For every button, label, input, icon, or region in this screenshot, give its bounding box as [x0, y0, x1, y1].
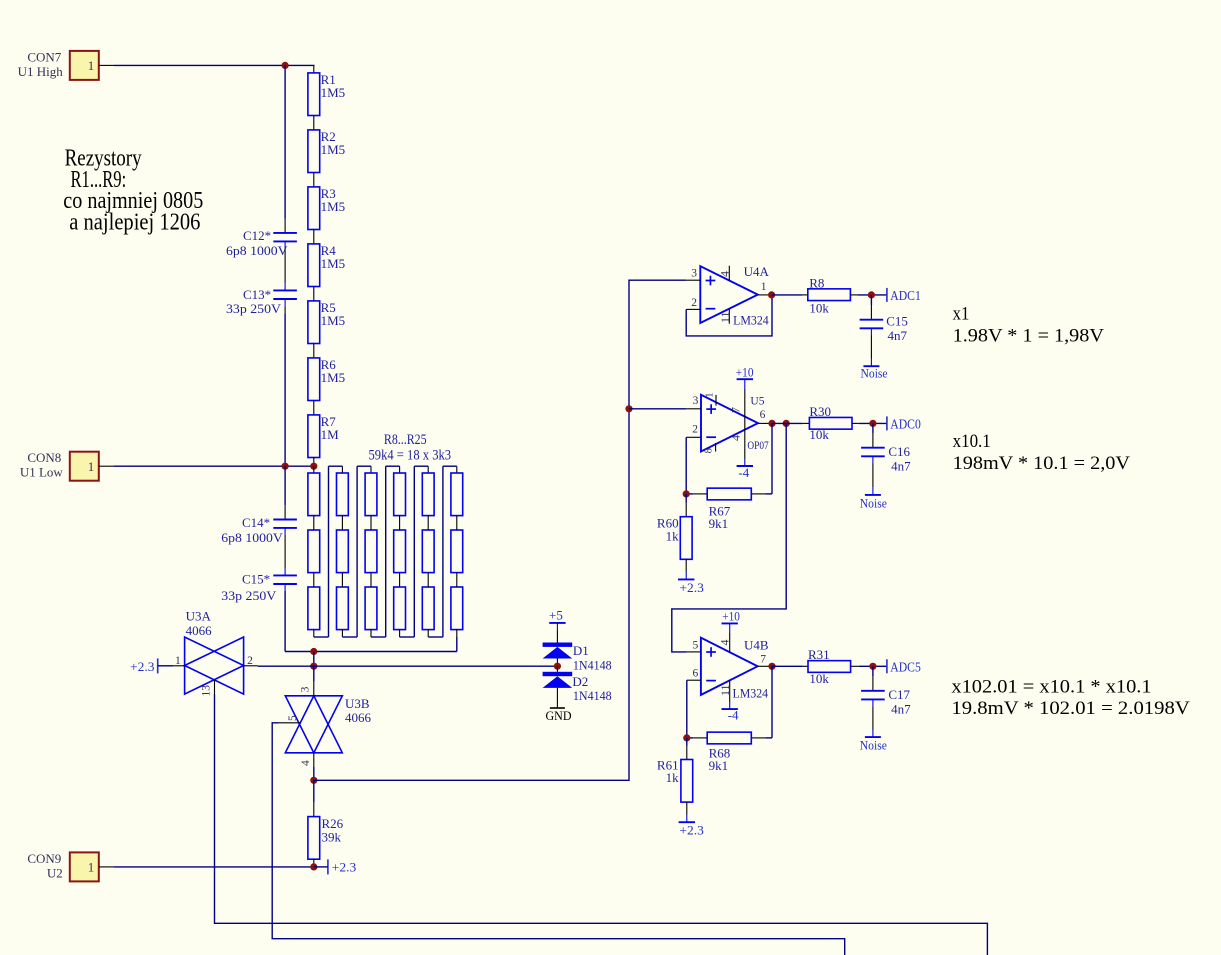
wire +5 to D1	[556, 623, 558, 643]
connector CON9 pin 1	[27, 851, 98, 882]
wire CON7 to node	[99, 64, 315, 66]
svg-text:U3B: U3B	[345, 696, 370, 711]
svg-text:R8: R8	[809, 276, 824, 291]
U5 balance pin 1 stub	[704, 393, 716, 406]
svg-text:U1 High: U1 High	[18, 64, 64, 79]
connector CON7 pin 1	[18, 49, 99, 80]
supply Noise under C15	[861, 328, 888, 380]
resistor R7 1M	[308, 414, 339, 457]
ground GND	[546, 688, 572, 723]
svg-text:D1: D1	[573, 643, 589, 658]
svg-text:x1: x1	[953, 303, 970, 324]
svg-text:1k: 1k	[666, 770, 680, 785]
svg-text:3: 3	[299, 686, 311, 692]
svg-text:+2.3: +2.3	[679, 580, 704, 595]
svg-text:C15: C15	[886, 314, 908, 329]
svg-text:1: 1	[761, 281, 767, 293]
svg-text:39k: 39k	[322, 829, 342, 844]
resistors array column 3 (3 x 3k3)	[365, 466, 377, 637]
junction R67/R60	[683, 490, 690, 497]
svg-text:4: 4	[300, 760, 312, 766]
svg-text:10k: 10k	[809, 427, 829, 442]
svg-text:-4: -4	[738, 465, 749, 480]
svg-text:10k: 10k	[809, 671, 829, 686]
svg-text:2: 2	[692, 424, 698, 436]
wire C12 to C13	[284, 241, 286, 290]
wire C14 branch	[284, 466, 286, 519]
supply +5	[549, 607, 566, 623]
junction ADC0 node	[869, 420, 876, 427]
wire tap node to diode clamp	[314, 665, 558, 667]
supply Noise under C17	[860, 699, 887, 752]
wire	[313, 344, 315, 358]
wire bus to U4A pin 3	[686, 279, 700, 281]
wire to R30	[772, 422, 809, 424]
wire R30 to ADC0 node	[852, 422, 887, 424]
svg-text:U1 Low: U1 Low	[20, 465, 64, 480]
junction R7/array	[310, 463, 317, 470]
U4A power pin 11 stub	[718, 309, 732, 324]
svg-text:1: 1	[88, 860, 95, 875]
supply Noise under C16	[860, 456, 887, 510]
svg-text:6p8 1000V: 6p8 1000V	[226, 243, 288, 258]
svg-text:Noise: Noise	[861, 366, 888, 381]
svg-text:9k1: 9k1	[709, 758, 729, 773]
supply +2.3 under R60	[678, 579, 704, 594]
svg-text:1M5: 1M5	[321, 370, 346, 385]
svg-text:6: 6	[692, 667, 698, 679]
analog switch U3B 4066	[285, 686, 371, 766]
wire CON8 to divider tap	[99, 465, 314, 467]
wire D1 anode to net	[556, 659, 558, 667]
supply +10 above U5	[736, 364, 754, 379]
svg-text:C12*: C12*	[243, 228, 271, 243]
svg-text:1N4148: 1N4148	[573, 688, 612, 703]
net label ADC1	[887, 288, 921, 303]
svg-text:1.98V * 1 = 1,98V: 1.98V * 1 = 1,98V	[953, 325, 1105, 346]
svg-text:198mV * 10.1 = 2,0V: 198mV * 10.1 = 2,0V	[953, 453, 1131, 474]
svg-text:4n7: 4n7	[888, 328, 908, 343]
svg-text:LM324: LM324	[733, 313, 769, 328]
net label +2.3 at R26	[314, 859, 357, 874]
resistor R68 9k1	[707, 732, 751, 773]
wire C14 to C15	[284, 528, 286, 576]
wire U3A pin 13 control net	[215, 680, 988, 955]
resistor R6 1M5	[308, 357, 345, 400]
junction U4A output	[768, 291, 775, 298]
junction array bottom	[310, 648, 317, 655]
junction R68/R61	[683, 734, 690, 741]
net label ADC5	[887, 659, 921, 674]
supply -4 under U5	[737, 465, 753, 480]
net label +2.3 at U3A pin 1	[130, 658, 158, 673]
wire U5 feedback loop	[751, 423, 772, 494]
wire U5 output	[758, 422, 772, 424]
wire U5 pin 2 from feedback	[686, 437, 701, 494]
svg-text:ADC0: ADC0	[890, 417, 921, 432]
wire	[313, 287, 315, 301]
svg-text:D2: D2	[572, 674, 588, 689]
svg-text:x10.1: x10.1	[953, 431, 991, 452]
svg-text:CON9: CON9	[27, 851, 61, 866]
resistor R1 1M5	[308, 72, 345, 115]
wire tap node to U3B pin 3	[313, 666, 315, 696]
wire R67 to node	[686, 493, 707, 495]
svg-text:OP07: OP07	[747, 440, 769, 452]
svg-text:Noise: Noise	[860, 738, 887, 753]
svg-text:1M5: 1M5	[321, 142, 346, 157]
svg-text:CON8: CON8	[27, 450, 61, 465]
junction top node	[282, 62, 289, 69]
op-amp U4A LM324	[691, 264, 769, 328]
junction U4B output	[768, 663, 775, 670]
svg-text:3: 3	[691, 268, 697, 280]
supply +2.3 under R61	[679, 822, 704, 838]
junction U3B output	[310, 777, 317, 784]
svg-text:C16: C16	[888, 444, 910, 459]
resistor R8 10k	[808, 276, 851, 316]
svg-text:4n7: 4n7	[891, 458, 911, 473]
label resistor array R8...R25	[369, 432, 452, 464]
junction ADC5 node	[869, 663, 876, 670]
svg-text:2: 2	[691, 297, 697, 309]
resistor R2 1M5	[308, 129, 345, 172]
wire U4B feedback loop	[751, 666, 772, 738]
junction diode clamp	[554, 663, 561, 670]
resistor R26 39k	[308, 780, 344, 867]
wire to U3A output net	[313, 652, 315, 667]
svg-text:x102.01 = x10.1 * x10.1: x102.01 = x10.1 * x10.1	[951, 676, 1151, 697]
svg-text:ADC1: ADC1	[890, 288, 921, 303]
svg-text:1N4148: 1N4148	[573, 657, 612, 672]
capacitor C16 4n7	[861, 423, 911, 473]
svg-text:U4A: U4A	[744, 264, 770, 279]
capacitor C13 33p 250V	[226, 287, 297, 316]
connector CON8 pin 1	[20, 450, 99, 481]
svg-text:1: 1	[88, 459, 95, 474]
wire R31 to ADC5 node	[851, 665, 887, 667]
svg-text:GND: GND	[546, 708, 572, 723]
capacitor C12 6p8 1000V	[226, 228, 297, 258]
svg-text:19.8mV * 102.01 = 2.0198V: 19.8mV * 102.01 = 2.0198V	[951, 698, 1190, 719]
svg-text:+2.3: +2.3	[679, 823, 704, 838]
diode D1 1N4148	[543, 643, 612, 673]
svg-text:a najlepiej 1206: a najlepiej 1206	[69, 210, 200, 236]
svg-text:1: 1	[88, 58, 95, 73]
resistors array column 2 (3 x 3k3)	[337, 466, 349, 637]
wire +2.3 to pin 1	[158, 665, 185, 667]
svg-text:4: 4	[718, 271, 732, 277]
svg-text:33p 250V: 33p 250V	[226, 301, 282, 316]
note x102.01 gain	[951, 676, 1190, 719]
capacitor C15 33p 250V	[221, 572, 297, 603]
supply -4 under U4B	[722, 708, 740, 723]
svg-text:C17: C17	[888, 687, 910, 702]
svg-text:5: 5	[287, 715, 299, 721]
wire CON9 to R26	[99, 866, 314, 868]
wire U4A feedback pin 2	[686, 295, 772, 336]
svg-text:C15*: C15*	[242, 572, 270, 587]
wire U3B pin 4 to output node	[313, 753, 315, 781]
wire U3B pin 5 control net	[272, 723, 845, 955]
wire U3B output to opamp bus	[314, 280, 686, 780]
wire U4A output	[758, 294, 772, 296]
wire U4B output	[758, 665, 772, 667]
svg-text:1: 1	[175, 655, 181, 667]
wire C13 down to CON8 net	[284, 299, 286, 466]
wire U3A pin 2 to tap node	[244, 665, 314, 667]
wire U5 out to U4B pin 5	[672, 423, 786, 652]
svg-text:13: 13	[200, 685, 212, 697]
svg-text:+10: +10	[736, 364, 754, 379]
resistor R31 10k	[808, 647, 851, 686]
resistor R4 1M5	[308, 243, 345, 286]
resistor R3 1M5	[308, 186, 345, 229]
svg-text:10k: 10k	[809, 300, 829, 315]
svg-text:R8...R25: R8...R25	[384, 432, 427, 448]
junction CON8/C13	[282, 463, 289, 470]
svg-text:1M5: 1M5	[321, 256, 346, 271]
supply +10 above U4B	[722, 609, 740, 624]
svg-text:1: 1	[704, 393, 715, 398]
svg-text:-4: -4	[728, 708, 739, 723]
svg-text:CON7: CON7	[27, 49, 61, 64]
capacitor C14 6p8 1000V	[221, 515, 297, 545]
wire node down to C12	[284, 65, 286, 233]
svg-text:1M5: 1M5	[321, 85, 346, 100]
resistor R61 1k	[657, 738, 693, 822]
resistor R5 1M5	[308, 300, 345, 343]
capacitor C17 4n7	[861, 666, 911, 716]
svg-text:33p 250V: 33p 250V	[221, 588, 277, 603]
svg-text:C14*: C14*	[242, 515, 270, 530]
note x10.1 gain	[953, 431, 1131, 474]
svg-text:U5: U5	[750, 396, 764, 408]
svg-text:U4B: U4B	[744, 637, 769, 652]
U4B power pin 11 stub	[718, 681, 732, 710]
net label ADC0	[887, 416, 921, 431]
wire array return riser 2	[342, 466, 371, 637]
svg-text:4: 4	[729, 435, 743, 441]
wire array return riser 5	[428, 466, 457, 637]
resistor R30 10k	[809, 404, 852, 442]
svg-text:+2.3: +2.3	[130, 659, 155, 674]
wire	[313, 173, 315, 187]
wire array return riser 3	[371, 466, 400, 637]
svg-text:4: 4	[718, 640, 732, 646]
svg-text:6: 6	[760, 409, 766, 421]
svg-text:7: 7	[760, 654, 766, 666]
svg-text:+10: +10	[722, 609, 740, 624]
op-amp U4B LM324	[692, 637, 768, 700]
wire array return riser 4	[400, 466, 429, 637]
svg-text:R30: R30	[809, 404, 831, 419]
svg-text:1M: 1M	[321, 427, 340, 442]
wire bus to U5 pin 3	[629, 408, 701, 410]
svg-text:+2.3: +2.3	[332, 860, 357, 875]
svg-text:4066: 4066	[186, 623, 213, 638]
resistors array column 6 (3 x 3k3)	[451, 466, 463, 637]
svg-text:3: 3	[693, 395, 699, 407]
op-amp U5 OP07	[692, 395, 769, 452]
svg-text:7: 7	[729, 407, 743, 413]
note resistors text	[63, 146, 203, 236]
svg-text:+5: +5	[549, 607, 563, 622]
resistors array column 5 (3 x 3k3)	[422, 466, 434, 637]
note x1 gain	[953, 303, 1105, 346]
wire to R8	[772, 294, 808, 296]
svg-text:Noise: Noise	[860, 496, 887, 511]
svg-text:5: 5	[692, 640, 698, 652]
junction ADC1 node	[868, 291, 875, 298]
U4A power pin 4 stub	[718, 266, 732, 281]
junction U5 output B	[783, 420, 790, 427]
svg-text:9k1: 9k1	[709, 516, 729, 531]
wire	[313, 230, 315, 244]
svg-text:4n7: 4n7	[891, 702, 911, 717]
U5 balance pin 8 stub	[703, 443, 715, 453]
svg-text:1M5: 1M5	[321, 313, 346, 328]
svg-text:8: 8	[703, 448, 714, 453]
junction R26/CON9	[310, 863, 317, 870]
svg-text:59k4 = 18 x 3k3: 59k4 = 18 x 3k3	[369, 448, 452, 464]
capacitor C15 4n7	[860, 295, 908, 343]
svg-text:R31: R31	[808, 647, 830, 662]
svg-text:4066: 4066	[345, 710, 372, 725]
svg-text:11: 11	[718, 311, 732, 323]
junction U5 output A	[768, 420, 775, 427]
svg-text:U2: U2	[47, 865, 63, 880]
svg-text:1M5: 1M5	[321, 199, 346, 214]
wire array return riser 1	[314, 466, 343, 637]
svg-text:C13*: C13*	[243, 287, 271, 302]
wire R68 to node	[687, 737, 707, 739]
wire	[313, 401, 315, 415]
resistors array column 4 (3 x 3k3)	[394, 466, 406, 637]
U4B power pin 4 stub	[718, 623, 732, 652]
svg-text:2: 2	[247, 655, 253, 667]
wire R8 to ADC1 node	[850, 294, 887, 296]
svg-text:11: 11	[718, 684, 732, 696]
wire array bottom bus	[285, 637, 457, 652]
wire C15 to array bottom bus	[284, 584, 286, 652]
wire R7 to CON8 node	[313, 458, 315, 467]
junction divider tap node	[310, 663, 317, 670]
svg-text:1k: 1k	[666, 528, 680, 543]
resistors array column 1 (3 x 3k3)	[308, 466, 320, 637]
svg-text:6p8 1000V: 6p8 1000V	[221, 530, 283, 545]
junction bus at U5 pin 3	[625, 405, 632, 412]
wire U4B feedback pin 6	[687, 680, 701, 738]
resistor R60 1k	[657, 494, 692, 580]
analog switch U3A 4066	[175, 609, 253, 697]
wire stub into R1	[313, 65, 315, 73]
svg-text:LM324: LM324	[733, 685, 769, 700]
diode D2 1N4148	[543, 666, 612, 703]
resistor R67 9k1	[707, 488, 751, 531]
svg-text:U3A: U3A	[186, 609, 212, 624]
U5 power pins 7/4 vertical	[729, 379, 745, 466]
wire	[313, 116, 315, 130]
wire to R31	[772, 665, 808, 667]
svg-text:ADC5: ADC5	[890, 660, 921, 675]
